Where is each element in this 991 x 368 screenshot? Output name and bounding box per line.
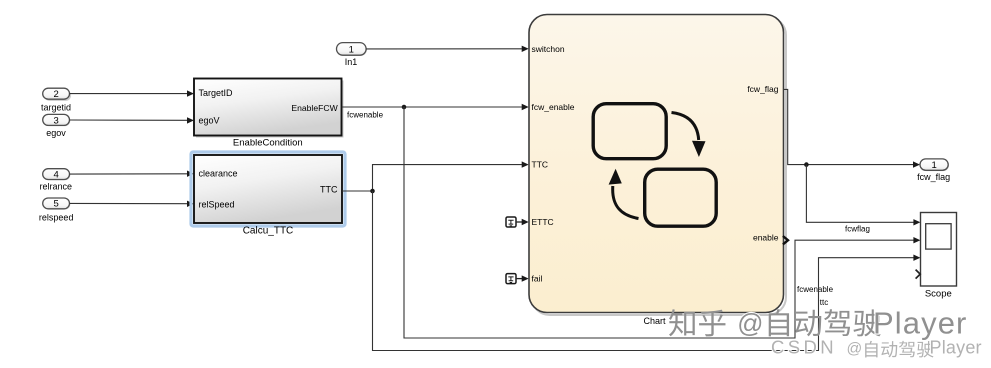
svg-text:TTC: TTC	[532, 160, 549, 170]
wire fcwenable EnableCondition to Chart	[342, 104, 529, 110]
svg-text:@: @	[847, 341, 863, 358]
svg-text:fcw_flag: fcw_flag	[747, 84, 778, 94]
svg-text:switchon: switchon	[532, 44, 565, 54]
wire fcwenable branch to Scope input2	[404, 107, 920, 338]
label Calcu_TTC	[243, 226, 294, 237]
inport oval In1	[337, 43, 367, 56]
stateflow icon state 1	[593, 104, 666, 159]
wire port5 to relSpeed	[70, 201, 195, 207]
wire fcwflag branch to Scope input1	[806, 165, 920, 226]
svg-text:Player: Player	[930, 338, 982, 358]
stateflow icon arrow left	[609, 169, 639, 219]
svg-text:Chart: Chart	[643, 316, 666, 326]
subsystem Calcu_TTC (selected)	[191, 152, 345, 226]
wire fcw_flag Chart to outport	[784, 89, 920, 167]
wire In1 to Chart switchon	[366, 46, 529, 52]
stateflow icon arrow right	[672, 113, 706, 158]
label relspeed	[39, 213, 74, 223]
chart enable output chevron	[783, 236, 788, 244]
svg-text:EnableFCW: EnableFCW	[291, 103, 338, 113]
svg-text:ttc: ttc	[820, 298, 828, 307]
svg-text:relspeed: relspeed	[39, 213, 74, 223]
svg-text:targetid: targetid	[41, 103, 71, 113]
svg-text:relSpeed: relSpeed	[199, 199, 235, 209]
svg-text:4: 4	[53, 169, 58, 180]
svg-text:Scope: Scope	[925, 289, 952, 300]
inport oval 5	[43, 198, 71, 210]
junction ttc	[370, 189, 375, 194]
svg-text:1: 1	[931, 160, 936, 171]
label egov	[46, 128, 66, 138]
inport oval 4	[43, 169, 71, 181]
svg-text:2: 2	[53, 89, 58, 100]
label In1	[345, 57, 358, 67]
junction fcwenable	[402, 105, 407, 110]
svg-text:5: 5	[53, 199, 58, 210]
label fcwenable (upper)	[347, 111, 384, 120]
svg-text:egoV: egoV	[199, 116, 220, 126]
subsystem EnableCondition	[194, 79, 344, 138]
svg-text:ETTC: ETTC	[532, 217, 554, 227]
svg-text:fcw_flag: fcw_flag	[917, 172, 950, 182]
svg-text:Player: Player	[873, 305, 967, 340]
svg-text:fail: fail	[532, 274, 543, 284]
svg-text:In1: In1	[345, 57, 358, 67]
label fcwenable (lower)	[797, 285, 834, 294]
svg-text:fcwflag: fcwflag	[845, 225, 870, 234]
label Scope	[925, 289, 952, 300]
scope unconnected input chevron	[916, 270, 921, 279]
wire TTC Calcu_TTC to Chart	[342, 161, 529, 191]
ground block ETTC	[506, 217, 516, 227]
svg-text:3: 3	[53, 115, 58, 126]
label relrance	[40, 181, 73, 191]
svg-text:TTC: TTC	[320, 185, 338, 195]
svg-text:1: 1	[349, 44, 354, 55]
wire port3 to egoV	[70, 117, 195, 123]
svg-text:enable: enable	[753, 232, 779, 242]
wire port4 to clearance	[70, 171, 195, 177]
svg-text:TargetID: TargetID	[199, 88, 234, 98]
svg-text:fcwenable: fcwenable	[797, 285, 834, 294]
watermark csdn line	[771, 337, 982, 358]
label fcw_flag under outport	[917, 172, 950, 182]
svg-text:clearance: clearance	[199, 169, 238, 179]
inport oval 2	[43, 88, 71, 101]
svg-text:CSDN: CSDN	[771, 337, 837, 358]
junction fcw_flag	[804, 162, 809, 167]
svg-text:egov: egov	[46, 128, 66, 138]
label EnableCondition	[233, 138, 303, 149]
ground block fail	[506, 274, 516, 284]
inport oval 3	[43, 114, 71, 126]
svg-text:relrance: relrance	[40, 181, 73, 191]
watermark zhihu line	[669, 305, 967, 340]
svg-text:fcwenable: fcwenable	[347, 111, 384, 120]
wire port2 to TargetID	[70, 90, 195, 96]
stateflow Chart block	[529, 15, 786, 316]
svg-text:Calcu_TTC: Calcu_TTC	[243, 226, 294, 237]
label fcwflag	[845, 225, 870, 234]
stateflow icon state 2	[645, 169, 717, 226]
label Chart	[643, 316, 666, 326]
scope block	[921, 213, 957, 287]
svg-text:EnableCondition: EnableCondition	[233, 138, 303, 149]
label ttc	[820, 298, 828, 307]
wire fail ground to Chart	[517, 275, 529, 281]
svg-text:fcw_enable: fcw_enable	[532, 102, 575, 112]
outport oval fcw_flag	[920, 159, 949, 171]
wire ttc branch to Scope input3	[373, 191, 921, 351]
wire ETTC ground to Chart	[517, 219, 529, 225]
label targetid	[41, 103, 71, 113]
svg-text:@: @	[737, 310, 763, 338]
